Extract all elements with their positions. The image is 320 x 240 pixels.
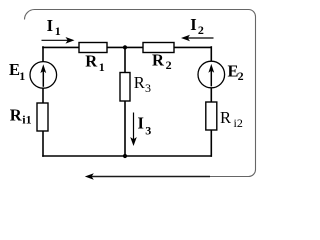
label E2 — [228, 62, 244, 83]
svg-text:R: R — [10, 106, 23, 125]
resistor R3 (box) — [120, 73, 130, 102]
svg-text:1: 1 — [55, 24, 61, 38]
svg-text:R: R — [220, 108, 231, 127]
resistor Ri1 (box) — [37, 103, 48, 131]
wire: middle branch vertical — [124, 47, 126, 156]
svg-text:1: 1 — [99, 60, 105, 74]
svg-text:2: 2 — [198, 23, 204, 37]
svg-text:3: 3 — [145, 81, 151, 95]
wire: right branch vertical — [210, 46, 212, 157]
label R2 — [152, 51, 172, 72]
label E1 — [9, 60, 25, 83]
current arrow I1 (points right) — [42, 37, 75, 44]
svg-text:3: 3 — [145, 124, 151, 138]
current arrow I3 (points down) — [130, 113, 137, 147]
svg-text:I: I — [190, 15, 196, 34]
svg-text:R: R — [152, 51, 165, 70]
loop contour arrow (outer rounded frame, open at left, arrowhead bottom-left) — [25, 10, 256, 180]
svg-text:I: I — [47, 16, 53, 35]
label R3 — [134, 73, 151, 95]
node: junction dot bottom — [123, 154, 127, 158]
wire: bottom horizontal — [42, 155, 212, 157]
svg-text:I: I — [138, 114, 144, 133]
label I1 — [47, 16, 61, 38]
current arrow I2 (points left) — [181, 35, 214, 42]
label Ri2 — [220, 108, 243, 130]
svg-text:i2: i2 — [234, 116, 243, 130]
svg-text:R: R — [85, 51, 98, 70]
resistor R2 (box) — [143, 43, 174, 53]
svg-text:2: 2 — [166, 58, 172, 72]
label R1 — [85, 51, 105, 74]
source E1 (circle with upward arrow) — [30, 62, 57, 89]
label I2 — [190, 15, 204, 37]
svg-text:R: R — [134, 73, 145, 92]
svg-text:i1: i1 — [22, 112, 31, 126]
resistor Ri2 (box) — [206, 102, 217, 130]
svg-text:2: 2 — [238, 69, 244, 83]
wire: left branch vertical — [42, 46, 44, 157]
node: junction dot top (between R1 and R2) — [123, 45, 127, 49]
source E2 (circle with upward arrow) — [198, 61, 225, 88]
wire: top horizontal from node A to node B — [42, 46, 212, 48]
svg-text:1: 1 — [19, 69, 25, 83]
label Ri1 — [10, 106, 32, 127]
resistor R1 (box) — [79, 43, 107, 53]
label I3 — [138, 114, 152, 138]
